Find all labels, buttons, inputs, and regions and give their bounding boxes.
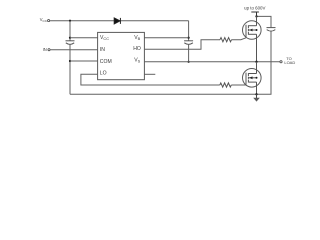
wire resistor to low gate [231, 84, 246, 86]
wire top rail VCC to corner [50, 20, 189, 22]
capacitor VCC bypass C1 [66, 41, 75, 45]
node TO LOAD terminal [280, 61, 282, 63]
svg-text:VCC: VCC [100, 35, 109, 41]
node IN terminal [48, 49, 50, 51]
wire COM pin [70, 60, 98, 62]
node junction cap to VS [188, 61, 190, 63]
svg-text:HO: HO [133, 46, 141, 52]
pin label VCC [100, 35, 141, 77]
node junction top rail at x70 [69, 20, 71, 22]
svg-text:IN: IN [43, 47, 47, 52]
svg-text:IN: IN [100, 47, 105, 53]
diode bootstrap D1 [114, 18, 120, 24]
wire bootstrap cap bottom to VS rail [188, 45, 190, 62]
transistor low side MOSFET Q2 [243, 62, 262, 95]
node junction 600V [255, 15, 257, 17]
svg-text:LOAD: LOAD [284, 60, 295, 65]
resistor low side gate [220, 83, 232, 87]
ground symbol [253, 94, 260, 101]
node junction VCC pin branch [69, 37, 71, 39]
capacitor DC bus C3 [267, 28, 276, 32]
wire LO stub right side [144, 73, 155, 75]
svg-text:up to 600V: up to 600V [244, 6, 265, 11]
svg-text:VB: VB [134, 35, 140, 41]
wire VB pin [144, 37, 188, 39]
wire bus cap top to 600V rail [257, 16, 272, 27]
transistor high side MOSFET Q1 [243, 16, 262, 61]
wire VS rail to load [144, 61, 279, 63]
svg-text:VS: VS [134, 57, 140, 63]
resistor high side gate [220, 38, 232, 42]
node junction source to ground rail [255, 93, 257, 95]
wire resistor to high gate [232, 38, 247, 40]
label TO LOAD [284, 56, 295, 65]
svg-text:LO: LO [100, 71, 107, 77]
supply terminal up to 600V [251, 12, 259, 16]
wire corner down to bootstrap cap [188, 21, 190, 41]
node junction COM [69, 60, 71, 62]
node VCC terminal [48, 20, 50, 22]
wire vertical x70 rail to cap [69, 21, 71, 41]
wire LO pin loop to low side rail [81, 74, 220, 85]
node junction VB [188, 37, 190, 39]
IC gate driver U1 [98, 32, 145, 79]
wire IN to pin [50, 49, 97, 51]
svg-text:COM: COM [100, 59, 112, 65]
node junction VS switch node [255, 61, 257, 63]
wire VCC pin [70, 37, 98, 39]
wire HO pin to resistor [144, 40, 220, 50]
wire vertical x70 cap to COM to ground rail [69, 45, 71, 95]
wire ground rail bottom [70, 31, 271, 94]
svg-text:VCC: VCC [40, 17, 48, 23]
capacitor bootstrap C2 [184, 41, 193, 45]
